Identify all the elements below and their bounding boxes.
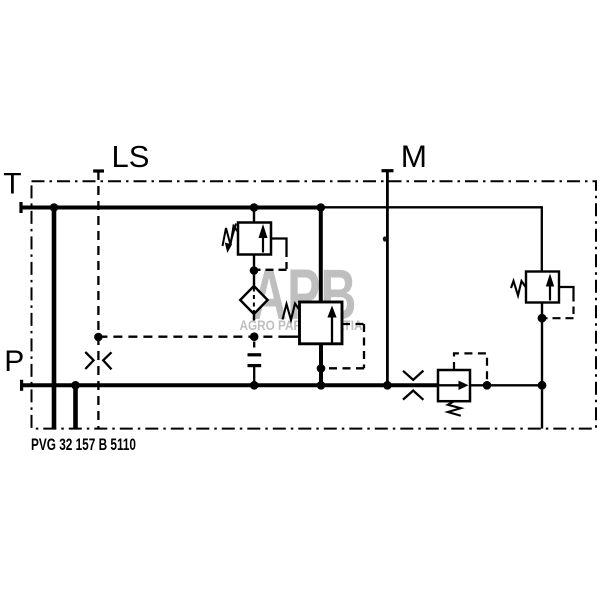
pilot line of U4 <box>454 353 487 382</box>
wire valve U1 bottom to node <box>253 255 255 271</box>
watermark APB logo <box>240 256 363 335</box>
wire supply to valve U2 <box>319 208 323 303</box>
junction node P at tank drop <box>538 381 547 390</box>
pilot line of U2 <box>325 324 364 368</box>
wire valve U2 outlet to P <box>319 344 323 386</box>
port T tick <box>19 202 22 213</box>
spring of U1 (adjustable, with arrow) <box>223 224 239 247</box>
wire P line after valve U4 <box>470 384 542 386</box>
enclosure frame (dash-dot subplate boundary) <box>32 181 597 428</box>
wire thin top run to relief valve U3 <box>321 207 542 271</box>
junction node P at U4 pilot return <box>483 381 492 390</box>
wire filter F1 bottom stub <box>253 314 255 321</box>
spring of U4 <box>448 401 461 416</box>
junction node on LS line <box>94 333 103 342</box>
pilot line of U3 <box>559 287 574 294</box>
svg-text:P: P <box>4 345 24 378</box>
junction node U3 drain tap <box>538 314 547 323</box>
wire tank drop through bottom border <box>541 385 543 428</box>
spring of U2 <box>283 304 300 321</box>
pilot line of U1 <box>271 239 287 251</box>
valve U3 shock/relief valve <box>526 272 559 303</box>
valve U1 pilot relief (adjustable) <box>238 223 271 255</box>
valve U4 pilot supply pressure reducer <box>438 370 470 401</box>
orifice O2 (fixed restrictor on LS line) <box>85 352 111 369</box>
junction node P at P-drop <box>71 381 80 390</box>
wire P main line <box>22 383 438 387</box>
junction node on T at T-drop <box>50 203 59 212</box>
port LS tick <box>93 169 104 172</box>
valve U2 pressure reducing (LS controlled) <box>300 302 343 344</box>
wire U3 outlet down to P junction <box>541 303 543 386</box>
junction node P at plug branch <box>250 381 259 390</box>
wire node to filter F1 <box>253 271 255 287</box>
junction node on T at supply branch <box>317 203 326 212</box>
wire LS stub into valve U2 spring side <box>283 336 300 338</box>
junction node LS branch to plug <box>250 332 259 341</box>
wire T drop to next section <box>52 208 57 429</box>
plug/orifice symbol on LS-P branch <box>248 342 262 386</box>
wire LS vertical (pilot, dashed) <box>97 171 99 429</box>
port M tick <box>382 169 394 172</box>
wire LS horizontal branch (dashed) <box>98 336 284 338</box>
svg-text:LS: LS <box>112 139 150 174</box>
junction node P at U2 branch <box>317 381 326 390</box>
junction node U2 outlet pilot tap <box>317 364 326 373</box>
junction node U1 outlet <box>250 266 259 275</box>
svg-text:M: M <box>401 138 427 174</box>
port P tick <box>20 380 23 391</box>
svg-text:T: T <box>3 168 21 201</box>
wire T main line <box>21 206 321 210</box>
filter F1 (diamond with dashed element) <box>240 286 267 314</box>
junction node P at M line <box>383 381 392 390</box>
wire M gauge line <box>386 171 389 385</box>
artifact dot on M line <box>383 236 387 241</box>
orifice O1 (fixed restrictor on P line) <box>403 371 423 400</box>
spring of U3 <box>511 281 526 296</box>
wire P drop to next section <box>73 385 78 428</box>
wire T line to valve U1 top <box>253 208 255 223</box>
junction node on T above U1 <box>250 203 259 212</box>
svg-text:PVG 32 157 B 5110: PVG 32 157 B 5110 <box>31 435 136 454</box>
